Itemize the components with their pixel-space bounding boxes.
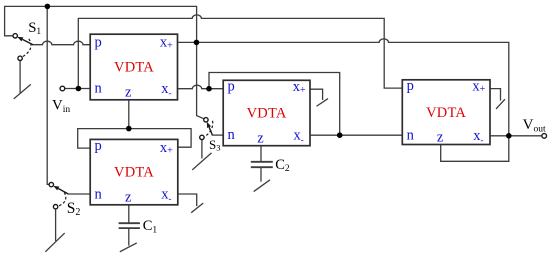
- svg-text:p: p: [407, 78, 414, 94]
- wire Vin terminal to U1 n: [65, 88, 90, 90]
- terminal S2 throw A: [49, 182, 53, 186]
- wire U4 x+ open stub: [490, 89, 501, 100]
- wire U2 x- open stub: [178, 194, 197, 206]
- svg-text:n: n: [95, 187, 103, 203]
- svg-text:z: z: [257, 131, 264, 147]
- wire S3 lower throw stub: [201, 140, 203, 158]
- open-end slash S1: [14, 85, 30, 99]
- open-end slash U2 x-: [192, 204, 203, 213]
- open-end slash U3 x+: [317, 99, 327, 106]
- wire U2 z to C1: [128, 205, 130, 223]
- svg-text:n: n: [228, 127, 236, 143]
- wire U1 x+ to node: [178, 41, 197, 43]
- svg-text:p: p: [95, 35, 102, 51]
- wire U3 x+ open stub: [310, 89, 323, 99]
- junction dot U3 x- node: [337, 132, 343, 138]
- wire top rail from S1 throw to x+ node: [5, 6, 197, 42]
- open-end slash S2: [46, 234, 64, 252]
- wire U4 z loop to Vout node: [441, 136, 509, 162]
- switch S3 arm: [207, 122, 213, 135]
- junction dot Vin node: [76, 86, 82, 92]
- svg-text:z: z: [125, 190, 132, 206]
- wire U3 z to C2: [260, 146, 262, 161]
- switch S2 dashed throw arc: [58, 192, 66, 206]
- terminal S2 throw B: [53, 205, 57, 209]
- switch S2 arm: [53, 186, 68, 194]
- junction dot U1 z / U2 loop: [126, 126, 132, 132]
- wire S1 pivot to U1 p: [33, 41, 90, 45]
- wire U2 feedback x+ to p: [78, 129, 191, 149]
- VDTA U1 box: [90, 34, 177, 100]
- wire U1 z down: [128, 100, 130, 129]
- wire U3 x- to U4 n: [310, 134, 402, 136]
- terminal Vin: [60, 86, 65, 91]
- capacitor C2 plates: [252, 162, 272, 167]
- wire C2 bottom stub: [260, 168, 262, 181]
- svg-text:z: z: [437, 129, 444, 145]
- terminal S3 throw B: [200, 135, 204, 139]
- wire Vin rail to U4 p: [78, 15, 402, 89]
- open-end slash U4 x+: [497, 100, 505, 109]
- wire S2 lower throw stub: [55, 209, 57, 240]
- switch S1 dashed throw arc: [22, 39, 31, 57]
- switch S1 arm: [17, 37, 33, 45]
- junction dot Vout node: [506, 133, 512, 139]
- wire S1 lower throw stub: [19, 61, 21, 93]
- svg-text:VDTA: VDTA: [247, 106, 287, 122]
- junction dot U3 p node: [206, 86, 212, 92]
- svg-text:VDTA: VDTA: [426, 105, 466, 121]
- switch S3 dashed throw arc: [204, 121, 212, 137]
- wire S3 pivot to U3 n: [212, 134, 223, 136]
- wire top rail drop to S2 throw: [47, 6, 49, 184]
- terminal S3 throw A: [204, 118, 208, 122]
- svg-text:n: n: [95, 81, 103, 97]
- terminal S1 throw A: [13, 34, 17, 38]
- open-end slash S3: [193, 153, 211, 169]
- capacitor C1 plates: [120, 223, 140, 228]
- VDTA U2 box: [90, 139, 178, 204]
- wire U1 x- to U3 p: [178, 85, 224, 89]
- junction dot x+ node: [194, 40, 200, 46]
- wire S2 pivot to U2 n: [68, 193, 90, 195]
- svg-text:VDTA: VDTA: [114, 60, 154, 76]
- svg-text:n: n: [407, 128, 415, 144]
- terminal Vout: [542, 134, 547, 139]
- open-end slash C1: [120, 243, 136, 251]
- terminal S1 throw B: [18, 56, 22, 60]
- svg-text:p: p: [228, 79, 235, 95]
- svg-text:z: z: [125, 85, 132, 101]
- wire C1 bottom stub: [128, 229, 130, 245]
- wire U4 x- to Vout terminal: [490, 135, 542, 137]
- wire x+ node to Vout node: [197, 39, 509, 136]
- VDTA U4 box: [402, 80, 490, 145]
- svg-text:p: p: [95, 138, 102, 154]
- VDTA U3 box: [223, 80, 310, 145]
- wire x+ node down to S3 throw: [197, 42, 204, 118]
- open-end slash C2: [254, 180, 269, 191]
- svg-text:VDTA: VDTA: [114, 165, 154, 181]
- wire U3 p node over box to U4 n node: [209, 73, 340, 136]
- junction dot top rail: [45, 4, 51, 10]
